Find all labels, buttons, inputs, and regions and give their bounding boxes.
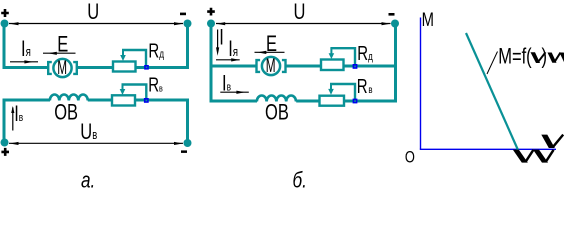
- label M inside motor (a): [57, 58, 67, 78]
- svg-text:ОВ: ОВ: [265, 100, 289, 125]
- svg-text:M: M: [266, 56, 276, 76]
- label OB (a): [54, 100, 78, 125]
- rheostat Rd body (a): [113, 62, 136, 72]
- label M=f(: [498, 44, 532, 69]
- Rd tap wire (b): [330, 48, 355, 64]
- svg-text:Iя: Iя: [21, 37, 31, 62]
- label I (b): [219, 25, 224, 50]
- minus terminal (b, top-right): [389, 13, 395, 16]
- svg-text:Iв: Iв: [14, 102, 23, 127]
- label Uv (a): [80, 120, 97, 145]
- label Iя (b): [228, 37, 238, 62]
- emf arrow E (a): [43, 52, 76, 55]
- svg-text:E: E: [266, 32, 277, 57]
- tap node Rv (a): [144, 98, 149, 103]
- tap node Rd (a): [144, 65, 149, 70]
- svg-text:I: I: [219, 25, 224, 50]
- Rv slider arrow (a): [120, 85, 126, 96]
- x-axis second zigzag glyph (V-form): [541, 135, 563, 148]
- caption a: [81, 169, 95, 194]
- plus terminal (a, bottom-left): [1, 148, 9, 156]
- wire Rv to right (a): [135, 100, 188, 141]
- wire right (b): [344, 25, 396, 101]
- plus terminal (b, top-left): [207, 8, 215, 16]
- Rv tap wire (a): [122, 85, 147, 100]
- Rd tap wire (a): [122, 50, 146, 66]
- motor M1 left brush (a): [48, 62, 52, 74]
- node (a, bottom-left +): [1, 139, 9, 147]
- label E (b): [266, 32, 277, 57]
- label Iv (b): [222, 71, 231, 96]
- minus terminal (a, top-right): [180, 13, 186, 16]
- Rv slider arrow (b): [328, 84, 334, 95]
- motor M1 right brush (a): [73, 62, 77, 74]
- label U (a): [87, 0, 99, 24]
- label M inside motor (b): [266, 56, 276, 76]
- y axis: [420, 18, 422, 150]
- rheostat Rv body (b): [320, 96, 345, 106]
- wire left (b): [211, 25, 257, 101]
- svg-text:U: U: [87, 0, 99, 24]
- closing parenthesis of label: [542, 44, 548, 69]
- svg-text:M=f(: M=f(: [498, 44, 532, 69]
- rheostat Rv body (a): [112, 95, 135, 105]
- label OB (b): [265, 100, 289, 125]
- second zigzag glyph in label (w-form): [548, 53, 564, 63]
- motor M2 right brush (b): [282, 60, 286, 72]
- field winding OB coil (a): [50, 94, 88, 100]
- svg-text:Iя: Iя: [228, 37, 238, 62]
- current arrow Iv (a): [11, 106, 14, 131]
- motor M2 left brush (b): [257, 60, 261, 72]
- voltage arrow U (a): [9, 22, 183, 25]
- wire Rd to right (b): [344, 65, 398, 68]
- label Iя (a): [21, 37, 31, 62]
- characteristic curve M=f(w): [466, 33, 518, 150]
- x-axis omega zigzag glyph (w-form): [513, 150, 554, 163]
- label E (a): [57, 32, 68, 57]
- node (b, top-left +): [207, 20, 215, 28]
- caption b: [293, 169, 307, 194]
- svg-text:а.: а.: [81, 169, 95, 194]
- tap node Rv (b): [353, 99, 358, 104]
- plus terminal (a, top-left): [1, 9, 9, 17]
- svg-text:Rв: Rв: [357, 75, 373, 98]
- svg-text:M: M: [422, 9, 434, 30]
- voltage arrow Uv (a): [9, 142, 183, 145]
- motor M1 armature circle (a): [53, 59, 71, 77]
- svg-text:M: M: [57, 58, 67, 78]
- wire motor to Rd (b): [286, 65, 322, 68]
- label U (b): [294, 0, 306, 24]
- motor M2 armature circle (b): [262, 57, 280, 75]
- wire field left (a): [4, 100, 50, 141]
- svg-text:U: U: [294, 0, 306, 24]
- wire armature stub left (b): [211, 65, 257, 68]
- wire OB to Rv (a): [88, 99, 112, 102]
- svg-text:Rв: Rв: [148, 73, 163, 96]
- axis label M: [422, 9, 434, 30]
- current arrow Iv (b): [220, 91, 249, 94]
- label Iv (a): [14, 102, 23, 127]
- origin label O: [405, 149, 415, 167]
- tap node Rd (b): [353, 64, 358, 69]
- wire left (a): [4, 25, 49, 68]
- emf arrow E (b): [255, 51, 285, 54]
- svg-text:O: O: [405, 149, 415, 167]
- label Rv (b): [357, 75, 373, 98]
- label Rv (a): [148, 73, 163, 96]
- node (a, top-right -): [184, 20, 192, 28]
- rheostat Rd body (b): [321, 60, 344, 71]
- svg-text:Rд: Rд: [148, 39, 164, 62]
- leader line: [487, 52, 498, 75]
- svg-text:Uв: Uв: [80, 120, 97, 145]
- x axis: [420, 148, 556, 150]
- label Rd (b): [357, 42, 373, 65]
- node (b, top-right -): [391, 20, 399, 28]
- wire OB to Rv (b): [296, 100, 319, 103]
- current arrow Iя (a): [10, 60, 38, 63]
- wire motor to Rd (a): [77, 66, 113, 69]
- node (a, top-left +): [1, 20, 9, 28]
- Rd slider arrow (a): [120, 50, 126, 61]
- voltage arrow U (b): [216, 22, 391, 25]
- omega zigzag glyph in label (V-form): [531, 52, 546, 63]
- Rv tap wire (b): [330, 84, 355, 99]
- label Rd (a): [148, 39, 164, 62]
- current arrow I (b): [216, 30, 219, 56]
- svg-text:): ): [542, 44, 548, 69]
- svg-text:ОВ: ОВ: [54, 100, 78, 125]
- wire Rd to right (a): [136, 25, 188, 68]
- node (a, bottom-right -): [184, 139, 192, 147]
- svg-text:Rд: Rд: [357, 42, 373, 65]
- svg-text:б.: б.: [293, 169, 307, 194]
- minus terminal (a, bottom-right): [181, 150, 187, 153]
- current arrow Iя (b): [216, 58, 240, 61]
- field winding OB coil (b): [257, 96, 296, 102]
- Rd slider arrow (b): [329, 48, 335, 59]
